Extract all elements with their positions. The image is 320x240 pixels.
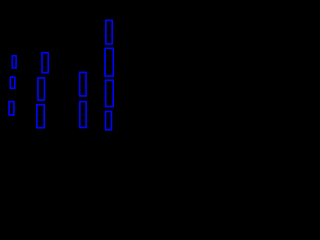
bar A2 (column 1, middle)	[10, 77, 14, 88]
bar B2 (column 2, middle)	[38, 78, 44, 100]
bar B1 (column 2, top)	[42, 53, 48, 73]
bar B3 (column 2, bottom)	[37, 105, 44, 128]
bar D4 (column 4, bottom)	[106, 112, 112, 130]
bar A1 (column 1, top)	[12, 56, 16, 68]
bar C2 (column 3, bottom)	[80, 102, 86, 128]
bar C1 (column 3, top)	[80, 72, 86, 96]
bar A3 (column 1, bottom)	[9, 102, 14, 115]
bar D2 (column 4, upper middle)	[105, 48, 113, 76]
bar D3 (column 4, lower middle)	[106, 80, 114, 106]
bar D1 (column 4, top)	[106, 20, 112, 44]
